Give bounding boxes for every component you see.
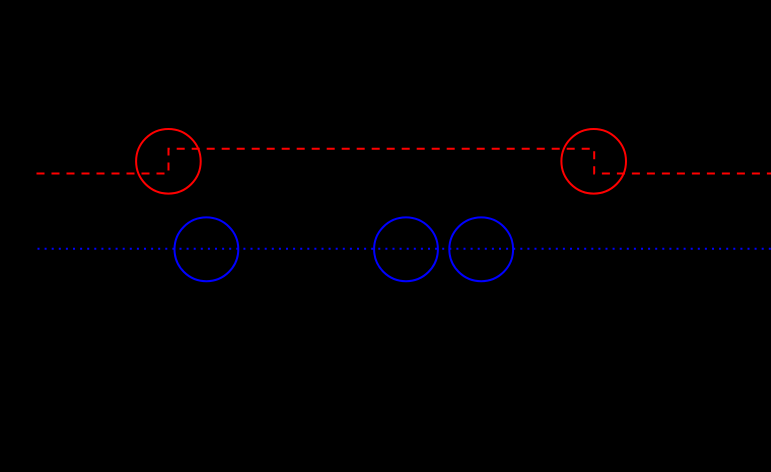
blue circle marker 1 bbox=[175, 217, 239, 281]
red dashed step line bbox=[37, 149, 771, 174]
blue dotted line bbox=[38, 248, 771, 250]
red circle marker 1 bbox=[136, 129, 201, 194]
red circle marker 2 bbox=[561, 129, 626, 194]
blue circle marker 2 bbox=[374, 217, 438, 281]
blue circle marker 3 bbox=[449, 217, 513, 281]
